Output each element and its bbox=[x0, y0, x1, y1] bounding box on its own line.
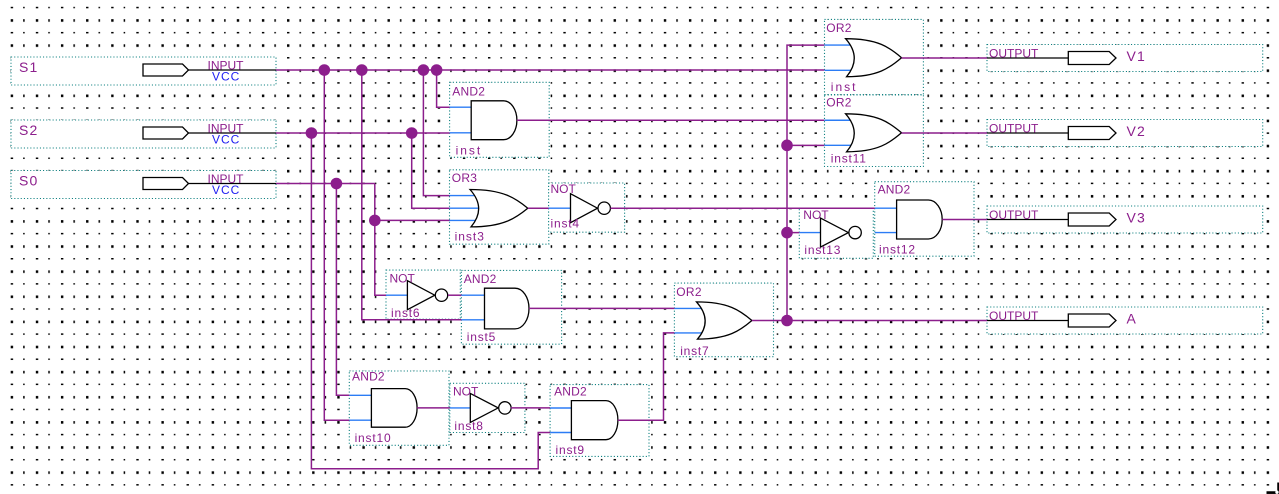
svg-text:NOT: NOT bbox=[551, 182, 577, 196]
junction node at (787,145.35) bbox=[781, 140, 793, 152]
wire S0 branch to and-gate inst10 input 1 bbox=[336, 184, 349, 396]
junction node at (361.8,70) bbox=[356, 64, 368, 76]
wire S0 branch to or-gate inst3 input 3 bbox=[375, 219, 450, 221]
output pin A bbox=[987, 307, 1263, 334]
svg-text:inst: inst bbox=[831, 80, 858, 94]
junction node at (311.4,133) bbox=[306, 127, 318, 139]
input pin S2 bbox=[11, 120, 276, 148]
svg-text:VCC: VCC bbox=[212, 133, 240, 147]
wire or-gate inst7 output to output pin A (node A) bbox=[752, 320, 987, 322]
wire node A branch to or-gate inst11 input 2 bbox=[787, 144, 824, 146]
wire node A vertical up to or-gate inst input 1 bbox=[787, 45, 824, 320]
or-gate inst7 (OR2) bbox=[674, 283, 773, 358]
svg-text:S1: S1 bbox=[19, 59, 39, 75]
or-gate inst11 (OR2) bbox=[825, 95, 924, 167]
junction node at (324.3,70) bbox=[319, 64, 331, 76]
junction node at (436.6,70) bbox=[431, 64, 443, 76]
svg-text:NOT: NOT bbox=[453, 384, 479, 398]
or-gate inst3 (OR3) bbox=[450, 170, 549, 244]
and-gate inst (AND2) bbox=[450, 82, 550, 157]
svg-text:AND2: AND2 bbox=[878, 182, 911, 196]
not-gate inst8 (NOT) bbox=[450, 383, 525, 433]
svg-text:inst6: inst6 bbox=[391, 306, 420, 320]
svg-text:AND2: AND2 bbox=[554, 384, 587, 398]
wire S0 branch down to not-gate inst6 input bbox=[375, 184, 386, 296]
not-gate inst4 (NOT) bbox=[549, 182, 625, 232]
corner resize mark bbox=[1267, 483, 1279, 494]
wire S1 branch to and-gate inst5 input 2 bbox=[362, 70, 462, 320]
svg-text:OR2: OR2 bbox=[826, 21, 852, 35]
wire not-gate inst6 output to and-gate inst5 input 1 bbox=[448, 294, 461, 296]
svg-text:V2: V2 bbox=[1127, 123, 1147, 139]
svg-text:inst: inst bbox=[456, 144, 483, 158]
and-gate inst10 (AND2) bbox=[349, 370, 449, 446]
not-gate inst6 (NOT) bbox=[386, 270, 460, 320]
svg-text:OUTPUT: OUTPUT bbox=[989, 208, 1039, 222]
svg-text:OR2: OR2 bbox=[826, 96, 852, 110]
junction node at (787,232.6) bbox=[781, 227, 793, 239]
output pin V1 bbox=[987, 45, 1263, 72]
svg-text:AND2: AND2 bbox=[452, 85, 485, 99]
svg-text:OR3: OR3 bbox=[452, 171, 478, 185]
wire S1 branch to and-gate inst10 input 2 bbox=[324, 70, 349, 420]
svg-text:inst10: inst10 bbox=[355, 431, 392, 445]
svg-text:V1: V1 bbox=[1127, 48, 1147, 64]
wire or-gate inst3 output to not-gate inst4 input bbox=[528, 207, 549, 209]
wire S2 horizontal to and-gate inst input 2 bbox=[276, 132, 450, 134]
wire S0 horizontal bbox=[276, 183, 375, 185]
svg-text:V3: V3 bbox=[1127, 210, 1147, 226]
wire not-gate inst4 output to and-gate inst12 input 1 bbox=[610, 207, 874, 209]
svg-text:inst12: inst12 bbox=[879, 243, 916, 257]
wire S1 branch to or-gate inst3 input 1 bbox=[423, 70, 449, 196]
junction node at (374.8,220.4) bbox=[369, 215, 381, 227]
svg-text:OUTPUT: OUTPUT bbox=[989, 309, 1039, 323]
svg-text:AND2: AND2 bbox=[352, 370, 385, 384]
wire S1 horizontal to or-gate inst bbox=[276, 69, 824, 71]
svg-text:OUTPUT: OUTPUT bbox=[989, 121, 1039, 135]
svg-text:inst4: inst4 bbox=[551, 216, 580, 230]
svg-text:VCC: VCC bbox=[212, 183, 240, 197]
wire and-gate inst output to or-gate inst11 input 1 bbox=[517, 119, 824, 121]
wire or-gate inst output to output pin V1 bbox=[902, 57, 988, 59]
input pin S1 bbox=[11, 57, 276, 85]
svg-text:inst7: inst7 bbox=[680, 344, 709, 358]
wire and-gate inst9 output to or-gate inst7 input 2 bbox=[618, 333, 675, 420]
output pin V3 bbox=[987, 206, 1263, 233]
wire node A branch to not-gate inst13 input bbox=[787, 232, 799, 234]
svg-text:A: A bbox=[1127, 311, 1138, 327]
svg-text:inst8: inst8 bbox=[454, 419, 483, 433]
svg-text:OUTPUT: OUTPUT bbox=[989, 46, 1039, 60]
input pin S0 bbox=[11, 171, 276, 199]
svg-text:inst5: inst5 bbox=[467, 330, 496, 344]
and-gate inst9 (AND2) bbox=[550, 384, 649, 457]
svg-text:inst9: inst9 bbox=[556, 443, 585, 457]
svg-text:AND2: AND2 bbox=[464, 272, 497, 286]
svg-text:OR2: OR2 bbox=[676, 285, 702, 299]
not-gate inst13 (NOT) bbox=[799, 208, 873, 258]
svg-text:NOT: NOT bbox=[803, 208, 829, 222]
wire and-gate inst12 output to output pin V3 bbox=[942, 219, 987, 221]
wire and-gate inst10 output to not-gate inst8 input bbox=[417, 407, 450, 409]
svg-text:inst11: inst11 bbox=[831, 152, 867, 166]
junction node at (423.4,70) bbox=[418, 64, 430, 76]
wire and-gate inst5 output to or-gate inst7 input 1 bbox=[529, 307, 674, 309]
wire S2 branch to and-gate inst9 input 2 bbox=[311, 133, 550, 469]
svg-text:S2: S2 bbox=[19, 122, 39, 138]
junction node at (411.7,133) bbox=[406, 127, 418, 139]
output pin V2 bbox=[987, 120, 1263, 147]
wire or-gate inst11 output to output pin V2 bbox=[902, 132, 988, 134]
svg-text:inst13: inst13 bbox=[804, 243, 841, 257]
svg-text:NOT: NOT bbox=[390, 271, 416, 285]
and-gate inst5 (AND2) bbox=[461, 270, 561, 344]
svg-text:inst3: inst3 bbox=[455, 230, 485, 244]
and-gate inst12 (AND2) bbox=[875, 182, 974, 257]
svg-text:S0: S0 bbox=[19, 173, 39, 189]
wire S1 branch to and-gate inst input 1 bbox=[437, 70, 450, 107]
junction node at (336.4,183.5) bbox=[331, 178, 343, 190]
wire not-gate inst8 output to and-gate inst9 input 1 bbox=[511, 407, 550, 409]
junction node at (787,320.5) bbox=[781, 315, 793, 327]
or-gate inst (OR2) bbox=[825, 19, 924, 94]
svg-text:VCC: VCC bbox=[212, 70, 240, 84]
wire S2 branch to or-gate inst3 input 2 bbox=[412, 133, 450, 208]
